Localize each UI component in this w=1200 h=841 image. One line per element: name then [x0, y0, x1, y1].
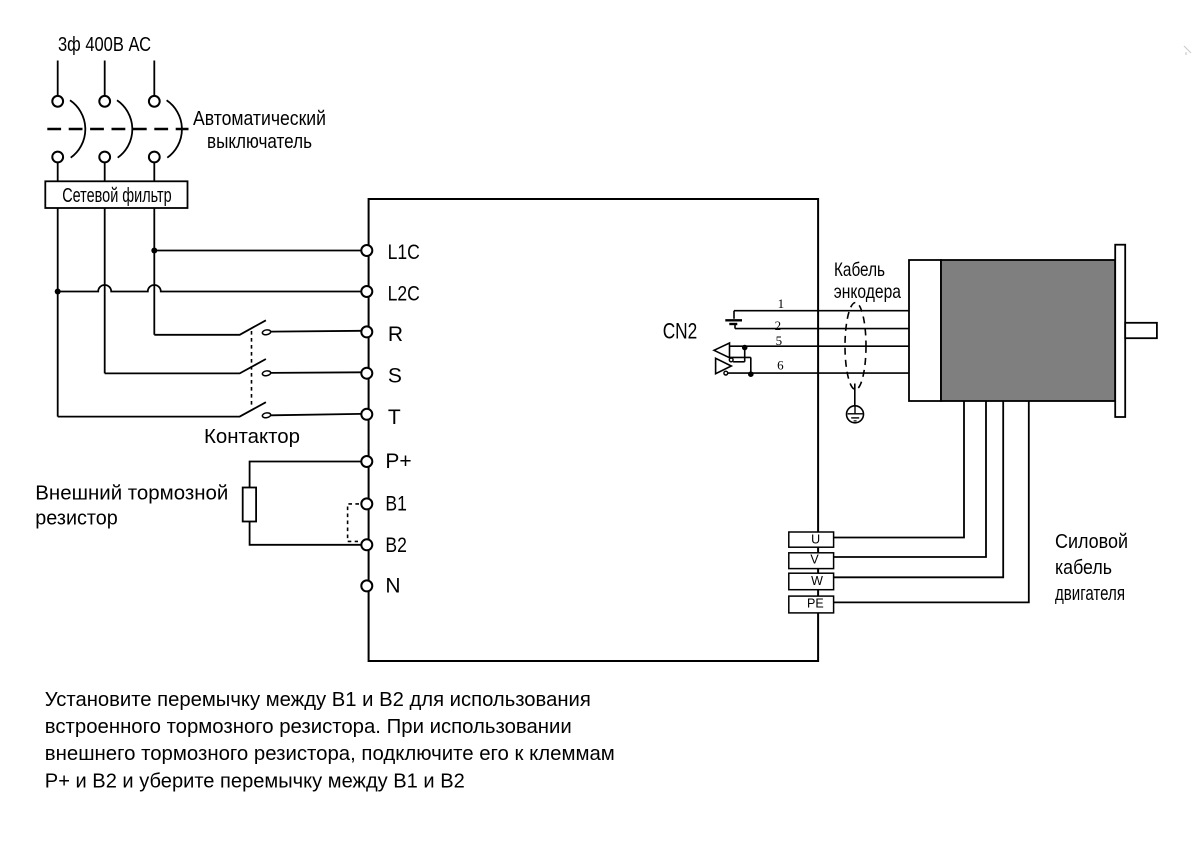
wire to L2C with crossover hops	[58, 285, 362, 291]
svg-text:P+: P+	[385, 450, 411, 473]
servo drive box U1	[369, 199, 818, 661]
svg-text:5: 5	[776, 333, 783, 348]
terminal PE box	[789, 596, 834, 613]
svg-text:Внешний тормозной: Внешний тормозной	[35, 483, 228, 505]
svg-text:W: W	[811, 574, 823, 588]
svg-text:внешнего тормозного резистора,: внешнего тормозного резистора, подключит…	[45, 742, 615, 765]
svg-text:2: 2	[775, 318, 782, 333]
svg-text:кабель: кабель	[1055, 557, 1112, 579]
wire encoder signal 1	[734, 310, 910, 312]
svg-text:резистор: резистор	[35, 507, 118, 529]
svg-text:PE: PE	[807, 596, 824, 610]
wire terminal W to motor	[834, 401, 1004, 577]
wire contactor T to terminal T	[271, 414, 361, 415]
svg-text:V: V	[810, 553, 819, 567]
svg-text:L1C: L1C	[388, 241, 420, 264]
svg-text:S: S	[388, 365, 402, 388]
wire contactor R to terminal R	[271, 330, 361, 333]
svg-text:1: 1	[778, 296, 785, 311]
wire resistor to B2	[250, 522, 361, 545]
svg-text:выключатель: выключатель	[207, 131, 312, 153]
wire to L1C	[154, 250, 361, 252]
node junction on L1C wire	[151, 248, 157, 254]
terminal R	[361, 326, 372, 337]
terminal T	[361, 409, 372, 420]
wire phase L3 stub	[153, 61, 155, 96]
wire phase L2 stub	[104, 61, 106, 96]
svg-text:L2C: L2C	[388, 283, 420, 306]
circuit breaker QF1 trip linkage dashed line	[47, 128, 188, 130]
circuit breaker QF1 pole 3 contacts	[149, 96, 160, 107]
ground symbol (protective earth)	[847, 406, 864, 423]
encoder supply battery symbol	[733, 311, 735, 319]
svg-text:3ф 400В АС: 3ф 400В АС	[58, 34, 151, 56]
wire breaker to filter pole 1	[57, 162, 59, 181]
wire terminal U to motor	[834, 401, 964, 538]
node junction on L2C wire	[55, 289, 61, 295]
terminal V box	[789, 553, 834, 569]
circuit breaker QF1 pole 1 contacts	[52, 96, 63, 107]
wire encoder signal 5	[730, 345, 910, 347]
wire encoder signal 6	[728, 372, 910, 374]
node junction on line 5	[742, 345, 748, 351]
motor M1 encoder housing	[909, 260, 941, 401]
terminal B2	[361, 539, 372, 550]
contactor KM1 pole T wire and blade	[58, 402, 266, 416]
cursor artifact top right	[1184, 46, 1191, 55]
wire phase L1 stub	[57, 61, 59, 96]
terminal N	[361, 580, 372, 591]
terminal L2C	[361, 286, 372, 297]
inverting bubble upper	[729, 358, 733, 362]
svg-text:CN2: CN2	[663, 319, 698, 344]
node junction on line 6	[748, 371, 754, 377]
wire cross-couple A	[730, 356, 751, 358]
svg-text:Сетевой фильтр: Сетевой фильтр	[62, 185, 172, 207]
svg-text:6: 6	[777, 357, 784, 372]
braking resistor wire from P+	[250, 462, 361, 488]
svg-text:Контактор: Контактор	[204, 426, 300, 448]
wire breaker to filter pole 3	[153, 162, 155, 181]
wire vertical to line 6	[750, 357, 752, 373]
contactor KM1 pole T fixed contact	[262, 412, 271, 418]
circuit breaker QF1 pole 3 arc	[167, 100, 182, 157]
terminal B1	[361, 498, 372, 509]
svg-text:Силовой: Силовой	[1055, 531, 1128, 553]
svg-text:T: T	[388, 406, 401, 429]
contactor KM1 linkage dashed	[251, 331, 253, 407]
motor M1 mounting flange	[1115, 245, 1125, 417]
jumper B1-B2 dashed	[348, 504, 359, 542]
contactor KM1 pole S fixed contact	[262, 370, 271, 376]
svg-text:Кабель: Кабель	[834, 259, 885, 281]
svg-text:энкодера: энкодера	[834, 281, 901, 303]
svg-text:N: N	[385, 575, 400, 598]
wire cross-couple B	[733, 361, 745, 363]
wire terminal PE to motor	[834, 401, 1029, 602]
svg-text:U: U	[811, 532, 820, 546]
wire filter output 2 (to S row)	[104, 208, 106, 373]
terminal W box	[789, 573, 834, 590]
receiver U2 triangle (upper)	[714, 343, 730, 358]
wire vertical from line 5	[744, 346, 746, 362]
svg-text:встроенного тормозного резисто: встроенного тормозного резистора. При ис…	[45, 715, 572, 738]
circuit breaker QF1 pole 2 contacts	[99, 96, 110, 107]
motor M1 body	[941, 260, 1115, 401]
terminal S	[361, 368, 372, 379]
driver U3 triangle (lower)	[716, 358, 732, 373]
wire contactor S to terminal S	[271, 371, 361, 374]
wire shield to ground	[854, 384, 856, 406]
svg-text:R: R	[388, 323, 403, 346]
cable shield ellipse dashed	[845, 303, 866, 390]
wire filter output 3 (to R row)	[153, 208, 155, 335]
contactor KM1 pole S wire and blade	[105, 359, 266, 373]
inverting bubble lower	[724, 371, 728, 375]
wire terminal V to motor	[834, 401, 986, 557]
motor M1 shaft	[1125, 323, 1157, 338]
terminal P+	[361, 456, 372, 467]
svg-text:Р+ и В2 и уберите перемычку м: Р+ и В2 и уберите перемычку между В1 и В…	[45, 769, 465, 792]
terminal L1C	[361, 245, 372, 256]
terminal U box	[789, 532, 834, 547]
svg-text:B2: B2	[385, 534, 407, 557]
wire breaker to filter pole 2	[104, 162, 106, 181]
contactor KM1 pole R fixed contact	[262, 329, 271, 335]
svg-text:Установите перемычку между В1: Установите перемычку между В1 и В2 для и…	[45, 688, 591, 711]
svg-text:B1: B1	[385, 492, 407, 515]
circuit breaker QF1 pole 1 arc	[70, 100, 85, 157]
wire filter output 1 (to T row)	[57, 208, 59, 417]
wire encoder signal 2	[735, 328, 910, 330]
svg-text:Автоматический: Автоматический	[193, 108, 326, 130]
line filter box	[45, 181, 187, 208]
contactor KM1 pole R wire and blade	[154, 320, 266, 335]
resistor R1 external braking resistor	[243, 488, 256, 522]
circuit breaker QF1 pole 2 arc	[117, 100, 132, 157]
svg-text:двигателя: двигателя	[1055, 583, 1125, 605]
